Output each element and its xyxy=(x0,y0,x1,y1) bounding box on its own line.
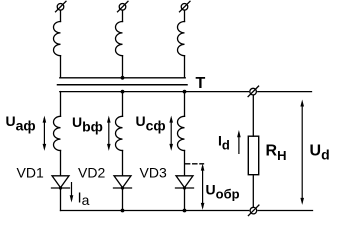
wire diode VD3 to cathode bus xyxy=(184,188,186,211)
primary star bus wire xyxy=(60,77,185,79)
terminal phase A xyxy=(56,1,67,12)
arrow Uaph voltage across winding a xyxy=(43,116,47,151)
primary winding phase A xyxy=(53,22,60,56)
wire neutral to secondary winding a xyxy=(60,92,62,117)
arrow Uobr reverse voltage xyxy=(201,164,205,210)
wire resistor RH bottom to terminal xyxy=(252,175,254,207)
svg-text:T: T xyxy=(196,75,206,92)
svg-text:VD1: VD1 xyxy=(17,165,44,181)
terminal phase B xyxy=(118,1,129,12)
output terminal minus xyxy=(248,205,259,216)
junction secondary neutral phase b xyxy=(121,90,125,94)
wire terminal A to winding xyxy=(60,10,62,21)
secondary neutral bus wire left xyxy=(60,91,249,93)
wire neutral to secondary winding b xyxy=(122,92,124,117)
resistor RH xyxy=(248,136,258,175)
wire winding b to diode VD2 xyxy=(122,151,124,176)
wire neutral to secondary winding c xyxy=(184,92,186,117)
wire cathode bus right of terminal xyxy=(258,210,312,212)
svg-text:VD2: VD2 xyxy=(78,165,105,181)
svg-text:VD3: VD3 xyxy=(140,165,167,181)
diode VD3 xyxy=(176,176,194,190)
arrow Ia anode current xyxy=(70,182,74,203)
arrow Ud output voltage xyxy=(300,100,304,205)
junction secondary neutral phase c xyxy=(183,90,187,94)
wire winding B to star bus xyxy=(122,56,124,78)
wire winding c to diode VD3 xyxy=(184,151,186,176)
wire terminal B to winding xyxy=(122,10,124,21)
svg-text:Ia: Ia xyxy=(78,190,90,209)
output terminal plus xyxy=(248,86,259,97)
wire neutral bus right of terminal xyxy=(258,91,312,93)
primary winding phase C xyxy=(177,22,184,56)
wire diode VD2 to cathode bus xyxy=(122,188,124,211)
wire winding a to diode VD1 xyxy=(60,151,62,176)
secondary winding phase c xyxy=(178,116,185,150)
wire winding C to star bus xyxy=(184,56,186,78)
junction cathode bus VD2 xyxy=(121,209,125,213)
wire diode VD1 to cathode bus xyxy=(60,188,62,211)
diode VD1 xyxy=(52,176,70,190)
arrow Id load current xyxy=(237,130,241,154)
wire winding A to star bus xyxy=(60,56,62,78)
arrow Ucph voltage across winding c xyxy=(169,116,173,151)
terminal phase C xyxy=(180,1,191,12)
arrow Ubph voltage across winding b xyxy=(107,116,111,151)
junction primary star point xyxy=(121,76,125,80)
secondary winding phase a xyxy=(53,116,60,150)
cathode bus wire xyxy=(61,210,249,212)
dashed line VD3 anode reference xyxy=(186,163,204,165)
primary winding phase B xyxy=(115,22,122,56)
transformer core xyxy=(58,84,188,86)
wire terminal C to winding xyxy=(184,10,186,21)
diode VD2 xyxy=(114,176,132,190)
secondary winding phase b xyxy=(116,116,123,150)
junction cathode bus VD3 xyxy=(183,209,187,213)
wire terminal to resistor RH top xyxy=(252,96,254,137)
